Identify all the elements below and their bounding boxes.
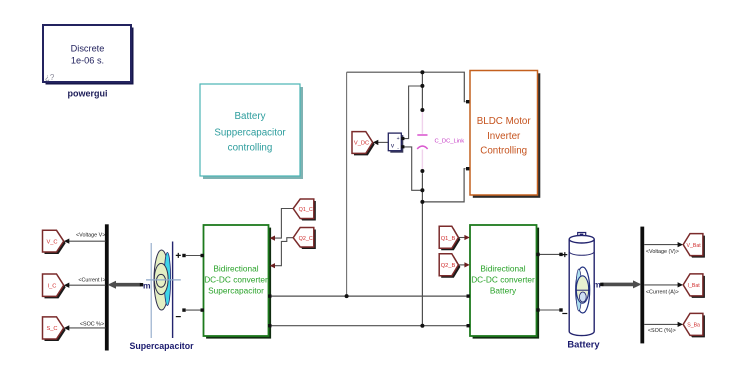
bus selector bar left <box>105 224 109 350</box>
voltage measurement block U_V <box>388 133 403 153</box>
svg-text:Battery: Battery <box>567 339 600 350</box>
svg-text:<Voltage (V)>: <Voltage (V)> <box>646 249 679 255</box>
svg-text:Battery: Battery <box>490 285 517 295</box>
port pad SC converter out1 <box>268 294 271 297</box>
goto tag V_Bat <box>683 234 705 258</box>
svg-text:Controlling: Controlling <box>480 146 527 157</box>
port pads voltmeter <box>401 137 404 140</box>
svg-text:I_C: I_C <box>48 283 57 289</box>
svg-text:<SOC %>: <SOC %> <box>80 322 104 328</box>
wire left DC rail down <box>346 72 348 296</box>
wire capacitor branch lower <box>421 174 423 326</box>
wire voltmeter to V_DC goto <box>378 141 389 143</box>
svg-text:Q1_C: Q1_C <box>299 207 313 213</box>
svg-text:DC-DC converter: DC-DC converter <box>471 274 535 284</box>
svg-text:<Voltage V>: <Voltage V> <box>76 233 105 239</box>
thick measurement bus supercap to left bar <box>115 283 141 287</box>
svg-text:Supercapacitor: Supercapacitor <box>208 285 264 295</box>
subsystem Bidirectional DC-DC converter Supercapacitor <box>204 225 272 339</box>
wire Q2_B from-tag to converter gate <box>458 264 465 266</box>
wire Q1_B from-tag to converter gate <box>458 237 465 239</box>
svg-text:S_Ba: S_Ba <box>687 323 700 329</box>
goto tag I_C <box>43 274 66 298</box>
junction node cap top <box>420 108 424 112</box>
svg-text:V_DC: V_DC <box>354 141 369 147</box>
junction node v- loop <box>420 188 424 192</box>
from tag Q2_C <box>293 228 316 250</box>
wire bar to V_Bat tag <box>644 244 678 246</box>
svg-text:Supercapacitor: Supercapacitor <box>129 341 194 351</box>
svg-text:m: m <box>593 279 601 289</box>
svg-text:+: + <box>397 136 400 142</box>
svg-text:controlling: controlling <box>228 143 273 154</box>
port pad BLDC port2 <box>466 167 469 170</box>
wire voltmeter plus loop <box>403 86 422 139</box>
junction node top rail / cap <box>420 70 424 74</box>
wire top DC rail to BLDC port1 <box>347 72 466 102</box>
wire bar to S_C tag <box>69 327 106 329</box>
capacitor C_DC_Link <box>417 110 464 171</box>
wire battery converter to battery minus <box>537 309 560 311</box>
port pad BLDC port1 <box>466 100 469 103</box>
svg-text:Suppercapacitor: Suppercapacitor <box>214 128 286 139</box>
svg-text:<Current I>: <Current I> <box>78 278 105 284</box>
wire supercap plus to converter <box>186 255 204 257</box>
battery icon <box>559 233 603 336</box>
from tag Q1_C <box>293 199 316 221</box>
wire supercap minus to converter <box>186 309 204 311</box>
svg-text:<SOC (%)>: <SOC (%)> <box>648 328 676 334</box>
wire to BLDC port2 <box>422 169 465 202</box>
svg-text:S_C: S_C <box>46 326 57 332</box>
thick measurement bus battery to right bar <box>602 283 635 287</box>
svg-text:Inverter: Inverter <box>487 131 521 142</box>
port pad Bat converter in2 <box>467 324 470 327</box>
wire Q1_C from-tag to converter gate <box>275 209 294 239</box>
port pad Bat converter in1 <box>467 294 470 297</box>
goto tag S_C <box>43 317 66 341</box>
wire low rail y326 <box>271 325 467 327</box>
svg-text:¿?: ¿? <box>45 73 55 82</box>
svg-text:Bidirectional: Bidirectional <box>480 264 525 274</box>
goto tag V_C <box>43 230 66 254</box>
from tag Q1_B <box>439 226 460 250</box>
wire capacitor branch upper <box>421 72 423 174</box>
port pad Bat converter out2 <box>536 308 539 311</box>
svg-text:Battery: Battery <box>234 111 265 122</box>
wire bar to I_C tag <box>69 284 106 286</box>
svg-text:Q2_B: Q2_B <box>441 263 456 269</box>
port pad Bat converter out1 <box>536 253 539 256</box>
powergui block U_powergui <box>43 25 134 99</box>
wire mid rail y296 <box>271 295 467 297</box>
svg-text:V_Bat: V_Bat <box>687 243 702 249</box>
junction node left rail / mid rail <box>345 294 349 298</box>
svg-text:C_DC_Link: C_DC_Link <box>435 139 465 145</box>
wire bar to S_Ba tag <box>644 323 678 325</box>
svg-text:powergui: powergui <box>68 89 108 99</box>
svg-text:Q1_B: Q1_B <box>441 236 456 242</box>
svg-text:I_Bat: I_Bat <box>688 283 701 289</box>
svg-text:BLDC Motor: BLDC Motor <box>477 116 532 127</box>
svg-text:1e-06 s.: 1e-06 s. <box>71 55 104 65</box>
svg-text:Discrete: Discrete <box>71 44 105 54</box>
goto tag V_DC <box>352 132 375 156</box>
svg-text:Q2_C: Q2_C <box>299 236 313 242</box>
wire bar to V_C tag <box>69 240 106 242</box>
svg-text:m: m <box>143 280 151 290</box>
bus selector bar right <box>640 227 644 344</box>
junction node BLDC wire <box>420 200 424 204</box>
goto tag I_Bat <box>683 274 705 298</box>
port pad SC converter plus <box>201 254 204 257</box>
wire Q2_C from-tag to converter gate <box>275 238 294 266</box>
wire bar to I_Bat tag <box>644 284 678 286</box>
subsystem Bidirectional DC-DC converter Battery <box>470 225 539 339</box>
subsystem Battery Suppercapacitor controlling <box>200 84 303 179</box>
supercapacitor icon <box>140 242 186 339</box>
port pad SC converter out2 <box>268 324 271 327</box>
arrowhead into V_DC <box>373 140 378 145</box>
wire battery converter to battery plus <box>537 253 560 255</box>
svg-text:<Current (A)>: <Current (A)> <box>646 290 679 296</box>
subsystem BLDC Motor Inverter Controlling <box>470 71 540 198</box>
junction node low rail <box>420 324 424 328</box>
goto tag S_Ba <box>683 313 705 337</box>
svg-text:V_C: V_C <box>46 239 57 245</box>
from tag Q2_B <box>439 254 460 278</box>
wire voltmeter minus loop <box>403 147 422 190</box>
svg-text:Bidirectional: Bidirectional <box>213 264 258 274</box>
junction node v+ loop <box>420 84 424 88</box>
svg-text:DC-DC converter: DC-DC converter <box>204 274 268 284</box>
port pad SC converter minus <box>201 308 204 311</box>
junction node cap bottom <box>420 169 424 173</box>
